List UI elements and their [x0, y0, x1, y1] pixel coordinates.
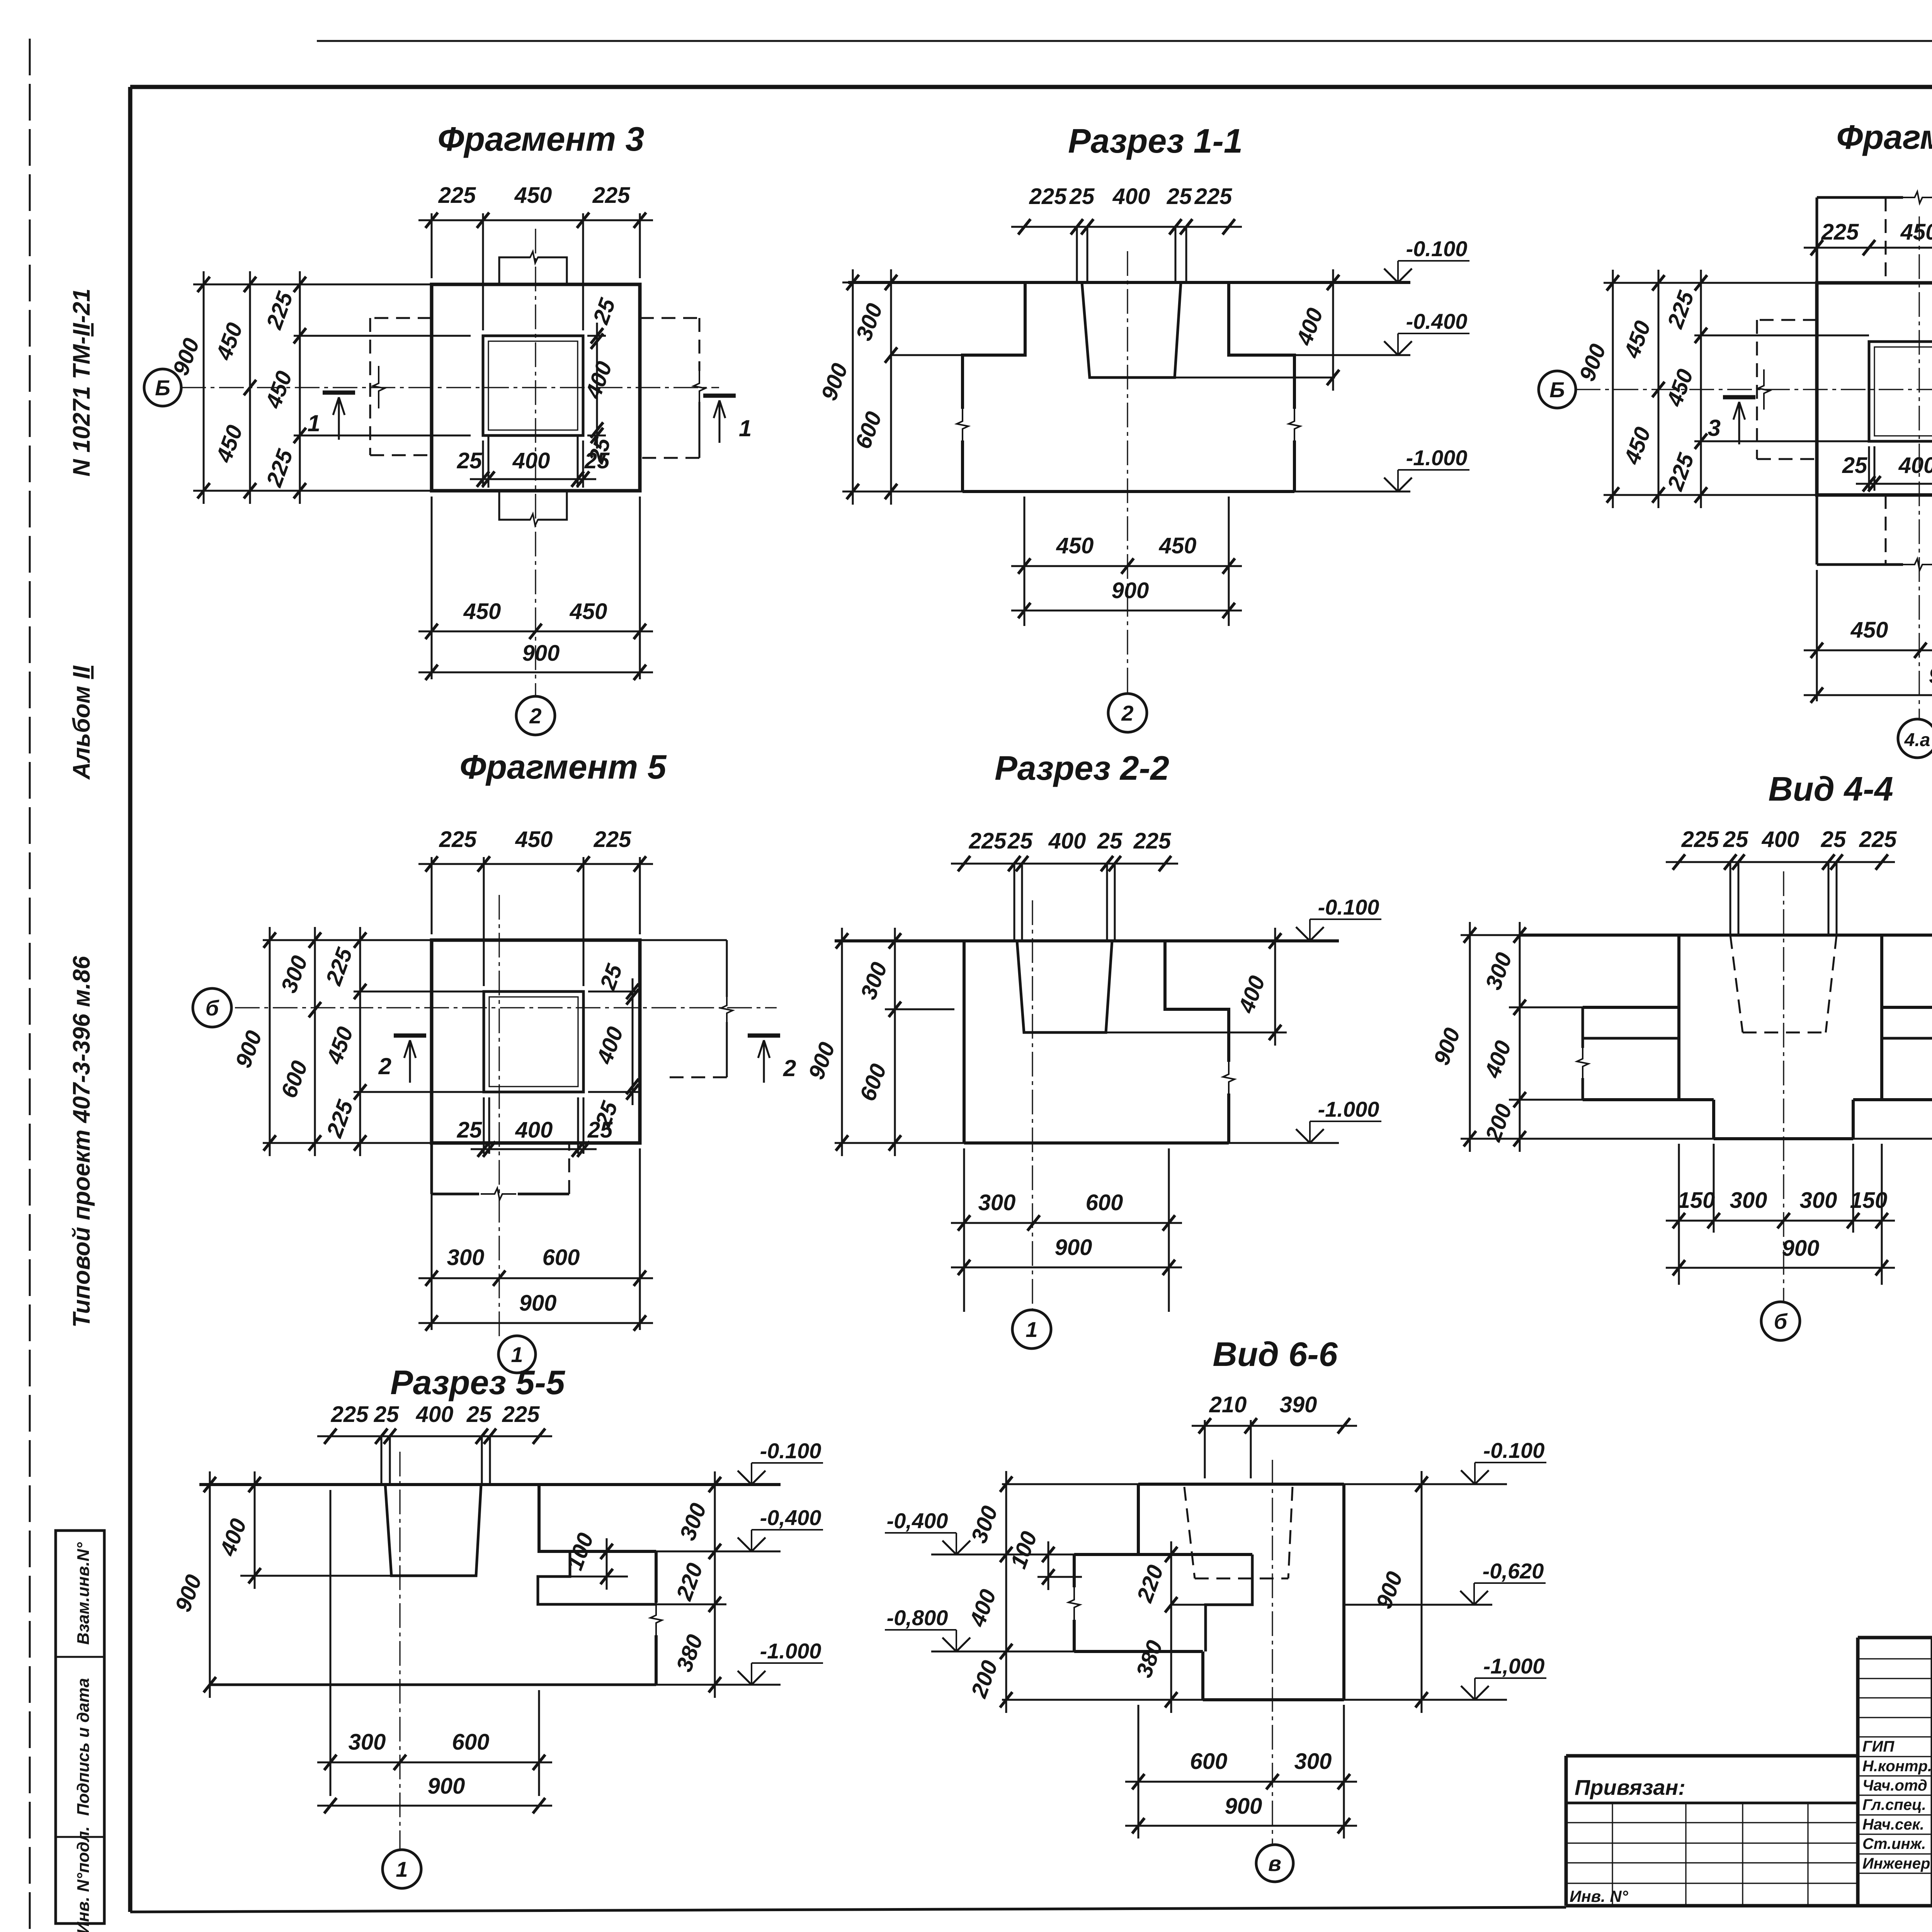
svg-text:225: 225 [592, 183, 631, 208]
vid6-6 left dim chain 300/400/200 [964, 1471, 1012, 1713]
vid4-4 left dim chain 900 [1429, 922, 1476, 1152]
razrez2-2 bottom extension lines [963, 1148, 965, 1312]
svg-text:2: 2 [783, 1055, 796, 1081]
fragment5 top dim chain 225/450/225 [418, 827, 653, 872]
fragment4 wall band bottom edge [1817, 563, 1903, 566]
svg-text:225: 225 [1859, 827, 1897, 852]
svg-text:900: 900 [522, 641, 560, 666]
svg-text:1: 1 [308, 410, 320, 436]
svg-text:Вид 4-4: Вид 4-4 [1768, 770, 1893, 808]
fragment5 socket dim extensions bottom [483, 1097, 485, 1154]
razrez1-1 elevation -0.100 [1384, 236, 1469, 282]
vid6-6 top dim chain 210/390 [1192, 1392, 1357, 1434]
vid4-4 socket joint extension lines [1730, 862, 1731, 935]
svg-text:225: 225 [331, 1402, 369, 1427]
svg-text:450: 450 [515, 827, 553, 852]
svg-text:225: 225 [1133, 828, 1172, 854]
razrez5-5 lower block ledge [538, 1551, 656, 1604]
fragment3 left dim chain 900 [168, 271, 210, 504]
fragment4 wall band top edge [1817, 196, 1903, 199]
fragment4 bottom extension lines [1816, 570, 1818, 701]
fragment5 axis line б (horizontal) [235, 1007, 777, 1008]
razrez5-5 bottom dim chain 900 [317, 1774, 552, 1813]
fragment4 left dim chain 900 [1575, 270, 1619, 508]
razrez1-1 bottom extension left [848, 491, 963, 493]
svg-text:900: 900 [1225, 1794, 1262, 1819]
fragment5 adjacent footing right [640, 939, 727, 941]
svg-text:Инв. N°подл.: Инв. N°подл. [74, 1826, 93, 1932]
svg-text:400: 400 [416, 1402, 454, 1427]
svg-text:25: 25 [466, 1402, 492, 1427]
fragment5 left dim chain 900 [231, 927, 276, 1156]
svg-text:Типовой проект 407-3-396 м.86: Типовой проект 407-3-396 м.86 [68, 956, 95, 1328]
vid6-6 bottom dim chain 900 [1125, 1794, 1357, 1833]
svg-text:600: 600 [452, 1730, 490, 1755]
fragment4 wall band hidden lines above [1885, 197, 1887, 283]
razrez2-2 break right edge [1223, 1061, 1235, 1095]
vid6-6 lower left edge [1201, 1651, 1204, 1700]
svg-text:25: 25 [1007, 828, 1033, 854]
razrez5-5 step extension right [656, 1551, 781, 1553]
vid6-6 right dim chain 900 [1371, 1471, 1428, 1713]
svg-text:Подпись и дата: Подпись и дата [74, 1678, 93, 1816]
vid4-4 axis circle б [1761, 1302, 1800, 1340]
razrez5-5 body bottom -1.000 [210, 1684, 656, 1686]
razrez2-2 body left edge [963, 941, 966, 1143]
fragment4 column socket inner 400x400 [1874, 347, 1932, 436]
fragment4 break line in left wall [1758, 369, 1770, 410]
svg-text:б: б [206, 996, 219, 1020]
razrez2-2 elevation -1.000 [1296, 1097, 1381, 1143]
svg-text:1: 1 [396, 1857, 408, 1881]
svg-text:-0.100: -0.100 [1406, 236, 1468, 261]
fragment4 adjacent wall left (hidden) [1757, 319, 1817, 321]
fragment5 axis circle 1 [498, 1336, 536, 1373]
title block bottom edge [1566, 1904, 1932, 1908]
razrez5-5 axis circle 1 [383, 1850, 421, 1888]
razrez2-2 top dim chain 225/25/400/25/225 [951, 828, 1178, 871]
vid6-6 step extension right [1344, 1604, 1492, 1606]
vid6-6 dim chain 220/380 [1131, 1541, 1177, 1713]
vid6-6 dim 220 extension [1171, 1604, 1206, 1606]
vid4-4 pier right edge [1880, 935, 1883, 1100]
svg-text:Н.контр.: Н.контр. [1862, 1758, 1932, 1775]
fragment3 left dim chain 450/450 [211, 271, 256, 504]
vid6-6 top extension lines v [1204, 1420, 1206, 1478]
vid4-4 left wing joint line [1583, 1037, 1679, 1040]
svg-text:-0,400: -0,400 [887, 1509, 948, 1533]
svg-text:450: 450 [1159, 533, 1197, 558]
vid6-6 dim 100 [1006, 1528, 1054, 1590]
svg-text:Б: Б [1549, 378, 1565, 402]
svg-text:400: 400 [1112, 184, 1150, 209]
title block vertical: signature table left [1856, 1638, 1860, 1906]
fragment3 axis circle Б [144, 369, 181, 406]
fragment3 top dim chain 225/450/225 [418, 183, 653, 228]
razrez1-1 body bottom -1.000 [963, 490, 1294, 493]
margin strip box [56, 1531, 104, 1923]
fragment4 axis circle Б [1539, 371, 1576, 408]
fragment5 column socket inner 400x400 [489, 997, 578, 1087]
razrez1-1 axis circle 2 [1108, 694, 1147, 732]
vid4-4 column below right edge [1852, 1100, 1855, 1139]
razrez2-2 axis line 1 (vertical) [1032, 900, 1033, 1309]
svg-text:1: 1 [739, 415, 752, 441]
razrez5-5 elevation -0.100 [738, 1439, 823, 1485]
svg-text:225: 225 [1029, 184, 1067, 209]
fragment4 axis line Б (horizontal) [1576, 389, 1932, 390]
svg-text:400: 400 [1762, 827, 1799, 852]
fragment3 section mark 1 (right) [703, 396, 752, 443]
drawing frame top [130, 85, 1932, 89]
svg-text:в: в [1268, 1851, 1281, 1876]
svg-text:-0.400: -0.400 [1406, 309, 1468, 333]
fragment3 socket dim extensions right [587, 335, 606, 337]
svg-text:-0.100: -0.100 [1483, 1438, 1545, 1463]
vid4-4 bottom right extension [1853, 1138, 1932, 1140]
fragment3 socket dim extensions bottom [482, 440, 484, 488]
vid6-6 top extension left [1002, 1483, 1138, 1485]
vid4-4 column below left edge [1712, 1100, 1715, 1139]
fragment3 footing outline 900x900 [432, 284, 640, 491]
drawing field bottom line [130, 1907, 1566, 1912]
razrez2-2 socket trapezoid [1017, 941, 1112, 1032]
fragment4 axis circle 4.а [1898, 719, 1932, 758]
razrez5-5 right edge [655, 1551, 658, 1603]
svg-text:-0,800: -0,800 [887, 1605, 948, 1630]
svg-text:600: 600 [1086, 1190, 1123, 1215]
vid6-6 elevation -0.100 (right) [1461, 1438, 1546, 1484]
razrez5-5 elevation -1.000 [738, 1639, 823, 1685]
svg-text:210: 210 [1209, 1392, 1247, 1417]
razrez1-1 bottom dim chain 450/450 [1011, 533, 1242, 574]
svg-text:Ст.инж.: Ст.инж. [1862, 1835, 1926, 1852]
svg-text:225: 225 [1194, 184, 1233, 209]
svg-text:600: 600 [1190, 1749, 1228, 1774]
svg-text:2: 2 [1121, 701, 1133, 725]
svg-text:450: 450 [1900, 219, 1932, 245]
razrez2-2 left dim chain 300/600 [855, 928, 901, 1156]
vid4-4 pier left edge [1677, 935, 1680, 1100]
razrez5-5 axis line 1 (vertical) [399, 1452, 400, 1849]
razrez5-5 ground line -0.100 [199, 1483, 781, 1486]
razrez2-2 right dim 400 (socket depth) [1233, 928, 1281, 1046]
signature table row lines [1858, 1658, 1932, 1659]
vid6-6 bottom dim chain 600/300 [1125, 1749, 1357, 1789]
vid6-6 elevation -0.800 (left) [885, 1605, 970, 1651]
svg-text:300: 300 [447, 1245, 485, 1270]
fragment5 bottom dim chain 900 [418, 1291, 653, 1331]
svg-text:Разрез 1-1: Разрез 1-1 [1068, 122, 1243, 160]
svg-text:-1,000: -1,000 [1483, 1654, 1545, 1678]
svg-text:2: 2 [378, 1053, 391, 1079]
svg-text:300: 300 [349, 1730, 386, 1755]
fragment3 left extension lines [193, 284, 432, 286]
svg-text:300: 300 [978, 1190, 1016, 1215]
vid6-6 bottom extension lines [1138, 1705, 1139, 1838]
fragment3 wall stub below [499, 491, 530, 520]
vid4-4 body bottom -1.000 [1714, 1137, 1853, 1140]
razrez1-1 axis line 2 (vertical) [1127, 251, 1128, 694]
razrez1-1 ledge extension right [1294, 354, 1410, 356]
razrez2-2 body bottom -1.000 [964, 1141, 1229, 1145]
vid6-6 upper left edge [1137, 1484, 1140, 1554]
svg-text:-0,620: -0,620 [1483, 1559, 1544, 1583]
razrez5-5 socket joint lines [381, 1436, 383, 1485]
vid4-4 ground line -0.100 [1519, 934, 1932, 937]
fragment3 bottom extension lines [431, 497, 433, 679]
vid4-4 left wing top [1583, 1006, 1679, 1009]
fragment5 left dim chain 300/600 [276, 927, 321, 1156]
svg-text:-0,400: -0,400 [760, 1505, 821, 1530]
fragment3 column socket outer 450x450 [483, 336, 583, 435]
svg-text:390: 390 [1280, 1392, 1317, 1417]
attachment table outer box [1566, 1754, 1858, 1758]
razrez5-5 left dim chain 900 [170, 1471, 216, 1698]
svg-text:225: 225 [594, 827, 632, 852]
vid4-4 socket hidden trapezoid [1730, 935, 1743, 1032]
attachment table header line [1566, 1802, 1858, 1804]
svg-text:Фрагмент 5: Фрагмент 5 [459, 748, 667, 786]
fragment5 adjacent footing right hidden bottom [665, 1077, 727, 1078]
fragment4 bottom dim chain 450/450 [1804, 617, 1932, 658]
razrez2-2 axis circle 1 [1012, 1310, 1051, 1349]
razrez5-5 right dim chain 300/220/380 [671, 1471, 721, 1698]
vid6-6 axis line В (vertical) [1272, 1460, 1273, 1844]
vid6-6 ledge -0.400 [1074, 1553, 1252, 1556]
svg-text:400: 400 [1898, 453, 1932, 478]
svg-text:1: 1 [1026, 1317, 1037, 1342]
svg-text:Инв. N°: Инв. N° [1570, 1887, 1629, 1905]
razrez1-1 break right edge [1289, 408, 1300, 442]
svg-text:900: 900 [519, 1291, 557, 1316]
svg-text:Разрез 2-2: Разрез 2-2 [995, 749, 1169, 787]
fragment4 axis line 4a (vertical) [1918, 216, 1920, 719]
vid4-4 left dim chain 300/400/200 [1480, 922, 1526, 1152]
vid6-6 top extension right [1344, 1483, 1507, 1485]
margin strip divider 1 [56, 1656, 104, 1658]
svg-text:ГИП: ГИП [1862, 1738, 1895, 1755]
svg-text:225: 225 [502, 1402, 540, 1427]
svg-text:-1.000: -1.000 [1318, 1097, 1379, 1121]
razrez1-1 elevation -1.000 [1384, 446, 1469, 492]
fragment4 top dim chain 225/450/225 [1804, 219, 1932, 255]
vid6-6 bottom extension right [1344, 1699, 1507, 1701]
fragment3 section mark 1 (left) [308, 393, 355, 440]
svg-text:450: 450 [514, 183, 552, 208]
margin strip divider 2 [56, 1836, 104, 1838]
vid6-6 right edge [1342, 1484, 1345, 1700]
razrez1-1 ground line -0.100 [848, 281, 1410, 284]
razrez5-5 elevation -0.400 [738, 1505, 823, 1551]
svg-text:-1.000: -1.000 [760, 1639, 821, 1663]
razrez5-5 dim 100 [562, 1530, 613, 1590]
svg-text:225: 225 [1681, 827, 1719, 852]
vid6-6 ledge extension left [931, 1554, 1074, 1556]
razrez5-5 bottom extension right [656, 1684, 781, 1686]
fragment4 socket dim extensions bottom [1868, 446, 1870, 491]
svg-text:Фрагмент 4: Фрагмент 4 [1836, 118, 1932, 156]
vid6-6 bottom -1.000 [1203, 1698, 1344, 1701]
fragment5 column socket outer 450x450 [484, 992, 583, 1092]
svg-text:Альбом II: Альбом II [68, 665, 95, 780]
svg-text:225: 225 [438, 183, 476, 208]
svg-text:Гл.спец.: Гл.спец. [1862, 1796, 1926, 1813]
vid6-6 step extension left [931, 1651, 1074, 1653]
svg-text:Чач.отд: Чач.отд [1862, 1777, 1927, 1794]
razrez2-2 socket bottom extension [1106, 1032, 1287, 1034]
title block vertical: col role/name [1931, 1638, 1932, 1906]
vid6-6 bottom extension left [1002, 1699, 1203, 1701]
svg-text:600: 600 [543, 1245, 580, 1270]
fragment3 bottom dim chain 450/450 [418, 599, 653, 639]
fragment4 footing outline 900x900 [1817, 283, 1932, 495]
fragment5 left dim chain 225/450/225 [321, 927, 366, 1156]
vid4-4 axis line б (vertical) [1783, 871, 1784, 1302]
vid4-4 top dim chain 225/25/400/25/225 [1666, 827, 1897, 870]
title block top edge [1858, 1636, 1932, 1639]
fragment5 axis circle б [193, 988, 231, 1027]
razrez2-2 socket joint lines [1014, 864, 1015, 941]
razrez5-5 socket bottom extension [240, 1575, 391, 1577]
svg-text:-1.000: -1.000 [1406, 446, 1468, 470]
fragment5 left extension lines [263, 939, 432, 941]
svg-text:300: 300 [1294, 1749, 1332, 1774]
razrez5-5 ledge extension right [656, 1604, 726, 1605]
vid6-6 middle step [1206, 1554, 1252, 1651]
svg-text:150: 150 [1850, 1188, 1888, 1213]
razrez1-1 break left edge [957, 408, 968, 442]
fragment3 axis circle 2 [516, 696, 555, 735]
svg-text:900: 900 [1929, 663, 1932, 688]
fragment5 section mark 2 (left) [378, 1036, 426, 1083]
svg-text:450: 450 [1056, 533, 1094, 558]
razrez2-2 body right profile [1165, 941, 1229, 1062]
svg-text:-0.100: -0.100 [760, 1439, 821, 1463]
svg-text:Б: Б [155, 376, 170, 400]
razrez5-5 break right edge [650, 1602, 662, 1636]
vid4-4 left wing end edge [1582, 1007, 1584, 1048]
svg-text:3: 3 [1708, 415, 1721, 441]
razrez1-1 socket joint lines [1076, 227, 1078, 282]
svg-text:25: 25 [1723, 827, 1748, 852]
razrez1-1 top dim chain 225/25/400/25/225 [1011, 184, 1242, 235]
razrez5-5 bottom dim chain 300/600 [317, 1730, 552, 1770]
attachment table column lines [1612, 1803, 1613, 1906]
vid4-4 right wing bottom [1853, 1098, 1932, 1101]
vid6-6 dim 100 extension [1037, 1576, 1082, 1578]
svg-text:450: 450 [1850, 617, 1888, 643]
vid6-6 elevation -1.000 (right) [1461, 1654, 1546, 1700]
drawing frame left [128, 87, 133, 1912]
razrez5-5 left dim 400 (socket depth) [215, 1471, 261, 1589]
svg-text:25: 25 [374, 1402, 399, 1427]
svg-text:-0.100: -0.100 [1318, 895, 1379, 919]
fragment5 axis line 1 (vertical) [498, 895, 500, 1336]
razrez2-2 elevation -0.100 [1296, 895, 1381, 941]
svg-text:Разрез 5-5: Разрез 5-5 [390, 1363, 565, 1401]
razrez5-5 dim 100 extension [570, 1576, 628, 1578]
sheet outer trim line left [29, 39, 31, 1932]
razrez2-2 left dim chain 900 [804, 928, 848, 1156]
fragment5 socket dim 25/400/25 (bottom) [457, 1117, 613, 1157]
fragment3 socket dim 25/400/25 (right) [580, 295, 620, 466]
fragment4 section mark 3 (left) [1708, 397, 1755, 444]
svg-text:Инженер: Инженер [1862, 1855, 1930, 1872]
razrez5-5 top dim chain 225/25/400/25/225 [317, 1402, 552, 1444]
svg-text:400: 400 [512, 448, 550, 473]
fragment3 adjacent wall right (hidden) [640, 317, 699, 319]
svg-text:N 10271 ТМ-II-21: N 10271 ТМ-II-21 [68, 289, 95, 477]
vid4-4 left wing bottom [1583, 1098, 1714, 1101]
svg-text:450: 450 [570, 599, 607, 624]
vid6-6 axis circle в [1256, 1845, 1293, 1882]
svg-text:4.а: 4.а [1904, 730, 1930, 750]
svg-text:150: 150 [1678, 1188, 1715, 1213]
razrez2-2 bottom dim chain 300/600 [951, 1190, 1182, 1231]
razrez2-2 bottom extension lines h [835, 1142, 964, 1144]
svg-text:25: 25 [1821, 827, 1846, 852]
razrez1-1 left dim chain 900 [816, 269, 859, 505]
fragment3 break line in right wall [694, 369, 705, 406]
vid4-4 break left wing [1577, 1047, 1588, 1078]
fragment5 bottom dim chain 300/600 [418, 1245, 653, 1286]
vid6-6 break left edge [1068, 1587, 1080, 1621]
razrez5-5 body right step [539, 1485, 656, 1551]
vid4-4 bottom dim chain 900 [1666, 1236, 1895, 1276]
vid6-6 left edge [1073, 1554, 1076, 1587]
fragment5 socket dim extensions right [588, 991, 638, 993]
fragment4 wall band hidden lines below [1885, 495, 1887, 565]
vid4-4 right wing joint line [1882, 1037, 1932, 1040]
svg-text:25: 25 [1167, 184, 1192, 209]
svg-text:300: 300 [1800, 1188, 1837, 1213]
svg-text:25: 25 [1097, 828, 1122, 854]
vid6-6 step -0.800 [1074, 1650, 1203, 1653]
vid6-6 top edge -0.100 [1138, 1483, 1344, 1486]
fragment5 footing outline 900x900 [432, 940, 640, 1143]
fragment3 top extension lines [431, 213, 433, 278]
svg-text:Вид 6-6: Вид 6-6 [1213, 1335, 1338, 1373]
fragment4 wall band above (edges) [1816, 197, 1818, 283]
fragment5 wall stub below [430, 1143, 433, 1194]
fragment4 left extension lines [1604, 282, 1817, 284]
fragment5 bottom extension lines [431, 1148, 433, 1330]
razrez5-5 bottom extension lines [330, 1490, 332, 1796]
fragment5 break line right edge [721, 994, 733, 1025]
fragment3 wall stub above [499, 257, 530, 284]
svg-text:Фрагмент 3: Фрагмент 3 [437, 120, 644, 158]
svg-text:25: 25 [1842, 453, 1867, 478]
svg-text:225: 225 [1821, 219, 1859, 245]
fragment3 break line in left wall [373, 366, 384, 408]
fragment4 socket dim 25/400/25 (bottom) [1842, 453, 1932, 492]
vid6-6 elevation -0.400 (left) [885, 1509, 970, 1554]
razrez1-1 ledge extension left [891, 354, 963, 356]
fragment3 column socket inner 400x400 [488, 341, 578, 430]
svg-text:300: 300 [1730, 1188, 1767, 1213]
razrez1-1 left dim chain 300/600 [850, 269, 897, 505]
fragment4 bottom dim chain 900 [1804, 663, 1932, 703]
svg-text:25: 25 [1069, 184, 1095, 209]
vid6-6 elevation -0.620 (right) [1460, 1559, 1546, 1605]
razrez2-2 bottom dim chain 900 [951, 1235, 1182, 1275]
razrez1-1 socket trapezoid [1082, 282, 1181, 378]
svg-text:900: 900 [1782, 1236, 1820, 1261]
fragment4 left dim chain 225/450/225 [1662, 270, 1707, 508]
fragment3 adjacent wall left (hidden) [370, 317, 432, 319]
svg-text:400: 400 [1048, 828, 1086, 854]
